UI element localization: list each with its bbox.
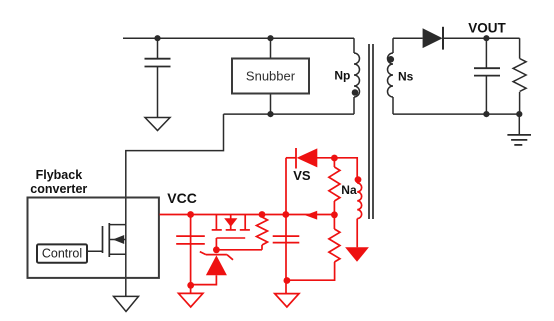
svg-text:Ns: Ns [398, 70, 414, 84]
svg-text:Snubber: Snubber [246, 69, 296, 84]
svg-text:converter: converter [30, 182, 87, 196]
svg-text:VCC: VCC [167, 190, 197, 206]
svg-text:Na: Na [341, 183, 357, 197]
svg-text:VOUT: VOUT [468, 20, 506, 35]
svg-text:VS: VS [293, 168, 311, 183]
svg-text:Control: Control [42, 247, 82, 261]
svg-text:Np: Np [334, 69, 350, 83]
svg-text:Flyback: Flyback [36, 168, 83, 182]
